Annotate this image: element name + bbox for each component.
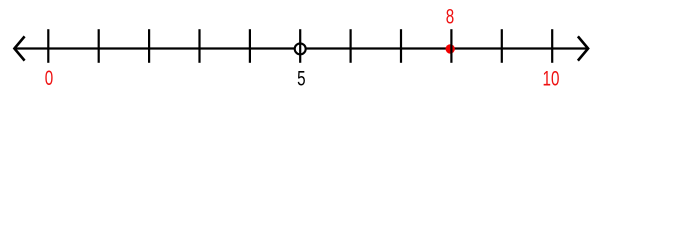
red dot at 8 <box>446 44 455 53</box>
tick 6 <box>350 29 352 63</box>
svg-text:0: 0 <box>45 66 53 90</box>
tick 4 <box>249 29 251 63</box>
tick 10 <box>551 29 553 63</box>
tick 0 <box>47 29 49 63</box>
svg-text:8: 8 <box>446 4 454 28</box>
tick 3 <box>198 29 200 63</box>
tick 1 <box>98 29 100 63</box>
svg-text:10: 10 <box>543 66 560 90</box>
tick 5 <box>299 29 301 63</box>
tick 8 <box>450 29 452 63</box>
tick 7 <box>400 29 402 63</box>
open circle at 5 <box>295 43 306 54</box>
left arrowhead <box>14 36 24 60</box>
wire: main horizontal number line <box>15 47 588 49</box>
number line diagram <box>0 0 700 100</box>
svg-text:5: 5 <box>297 66 305 90</box>
tick 9 <box>501 29 503 63</box>
tick 2 <box>148 29 150 63</box>
right arrowhead <box>578 36 588 60</box>
